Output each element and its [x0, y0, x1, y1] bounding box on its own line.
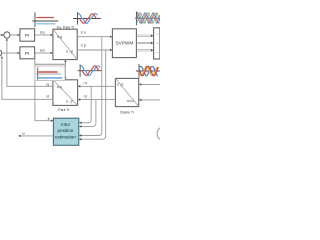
svg-text:a,b,c: a,b,c [127, 99, 134, 103]
wire Ibeta tap to estimator [82, 100, 96, 127]
wire theta riser from estimator [35, 53, 51, 121]
svg-text:Ud: Ud [40, 49, 45, 53]
wire Ud [35, 52, 50, 54]
block U1 inverse Park transform [53, 29, 77, 59]
wire Ibeta Clarke to Park [80, 99, 115, 101]
wire theta into inverse Park [64, 62, 66, 64]
wire pwm phase a [136, 35, 151, 36]
svg-text:α , β: α , β [66, 50, 73, 54]
wire phase current ia into Clarke [141, 83, 160, 85]
wire theta branch to transforms [35, 63, 66, 65]
wire Ubeta tap to estimator [82, 50, 106, 139]
wire pwm phase b [136, 42, 151, 43]
wire theta into Park [64, 64, 66, 77]
plot P6 Ialpha Ibeta sine traces [78, 65, 102, 77]
block U6 rotor position estimator [53, 118, 78, 145]
wire Ialpha Clarke to Park [80, 85, 115, 87]
svg-text:Uq: Uq [40, 30, 45, 34]
wire pwm phase c [136, 50, 151, 51]
wire omega output [21, 135, 54, 137]
svg-text:Iq: Iq [46, 83, 49, 87]
wire Ualpha tap to estimator [82, 37, 102, 136]
summing junction S2 (cut by left edge) [0, 50, 2, 56]
PI controller PI1 [20, 29, 35, 41]
svg-text:α , β: α , β [66, 100, 73, 104]
svg-text:Park Tr: Park Tr [58, 108, 70, 112]
svg-text:I α: I α [84, 81, 88, 85]
svg-text:d,q: d,q [57, 35, 62, 39]
wire Ubeta [77, 49, 110, 51]
wire Iq feedback [7, 40, 53, 86]
svg-text:α , β: α , β [117, 82, 123, 86]
block U3 inverter (cut by right edge) [154, 28, 160, 59]
block U2 SVPWM [112, 29, 136, 58]
wire Uq [35, 34, 50, 36]
svg-text:SVPWM: SVPWM [116, 41, 134, 46]
plot P3 Iq Id traces [35, 66, 65, 81]
svg-text:Clarke Tr: Clarke Tr [120, 111, 135, 115]
block U5 Park transform [53, 80, 78, 106]
svg-text:PI: PI [25, 51, 30, 57]
plot P2 Ualpha Ubeta sine traces [73, 12, 101, 24]
PI controller PI2 [20, 47, 35, 59]
motor M (cut by right edge) [157, 126, 171, 140]
block U4 Clarke transform [115, 78, 138, 106]
svg-text:rotor: rotor [61, 122, 71, 127]
svg-text:d,q: d,q [57, 85, 62, 89]
svg-text:position: position [57, 128, 73, 133]
wire Id feedback [2, 58, 53, 100]
svg-text:U β: U β [81, 44, 86, 48]
summing junction S1 [4, 32, 10, 38]
svg-text:θ: θ [48, 117, 50, 121]
wire Ialpha tap to estimator [82, 86, 92, 123]
svg-text:PI: PI [25, 33, 30, 39]
svg-text:I β: I β [84, 94, 88, 98]
svg-text:ω: ω [22, 132, 25, 136]
plot P4 three phase current sines [136, 64, 160, 78]
plot P1 Uq Ud traces [32, 12, 58, 27]
svg-text:U α: U α [81, 30, 86, 34]
wire Ualpha [77, 36, 110, 38]
svg-text:estimation: estimation [55, 134, 76, 139]
wire S2 to PI2 [3, 52, 18, 54]
wire phase current ib into Clarke [141, 99, 160, 101]
svg-text:Id: Id [46, 95, 49, 99]
plot P5 SVPWM zigzag traces [135, 11, 160, 25]
wire S1 to PI1 [10, 34, 17, 36]
wire iq* reference input [0, 34, 2, 36]
